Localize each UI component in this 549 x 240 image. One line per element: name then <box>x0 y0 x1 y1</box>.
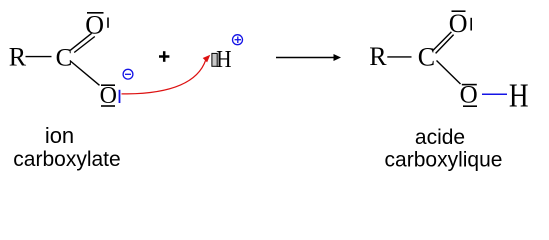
red electron pair curved arrow <box>122 60 206 94</box>
double bond C=O acid line 2 <box>436 35 454 54</box>
svg-text:C: C <box>56 44 73 71</box>
wire bond R-C <box>26 56 52 58</box>
double bond C=O line 1 <box>70 33 91 50</box>
svg-text:R: R <box>369 42 387 71</box>
empty orbital box on proton <box>212 53 217 66</box>
plus sign inside charge <box>235 39 241 41</box>
svg-text:C: C <box>418 43 435 72</box>
plus sign between reactants <box>159 55 169 58</box>
lone pair bar below bottom O <box>101 105 115 107</box>
lone pair right of acid top O <box>470 18 472 31</box>
plus charge circle on H <box>233 35 243 45</box>
svg-text:H: H <box>216 44 231 72</box>
lone pair bar above bottom O <box>101 84 115 86</box>
svg-text:O: O <box>85 10 104 39</box>
lone pair bar above acid top O <box>452 10 466 12</box>
svg-text:R: R <box>9 42 27 71</box>
svg-text:O: O <box>449 9 468 38</box>
minus sign inside charge <box>125 73 131 75</box>
red arrowhead <box>203 55 211 63</box>
svg-text:H: H <box>509 77 529 114</box>
wire bond R-C (acid) <box>387 56 411 58</box>
svg-text:acide: acide <box>415 126 465 149</box>
double bond C=O acid line 1 <box>432 32 451 51</box>
lone pair right of bottom O (blue, attacking pair) <box>119 90 121 103</box>
reaction arrow <box>276 57 336 59</box>
bond O-H blue (newly formed) <box>482 93 507 95</box>
single bond C-O (acid) <box>437 61 461 85</box>
lone pair bar above acid bottom O <box>462 84 477 86</box>
svg-text:ion: ion <box>45 123 74 148</box>
lone pair right of top O <box>107 18 109 28</box>
lone pair bar below acid bottom O <box>463 105 477 107</box>
svg-text:O: O <box>100 83 117 109</box>
svg-text:O: O <box>460 82 478 109</box>
svg-text:carboxylate: carboxylate <box>13 148 120 171</box>
lone pair bar above top O <box>87 12 104 14</box>
double bond C=O line 2 <box>74 37 95 53</box>
svg-text:carboxylique: carboxylique <box>385 148 503 171</box>
single bond C-O <box>70 61 100 86</box>
minus charge circle on O <box>123 69 133 79</box>
